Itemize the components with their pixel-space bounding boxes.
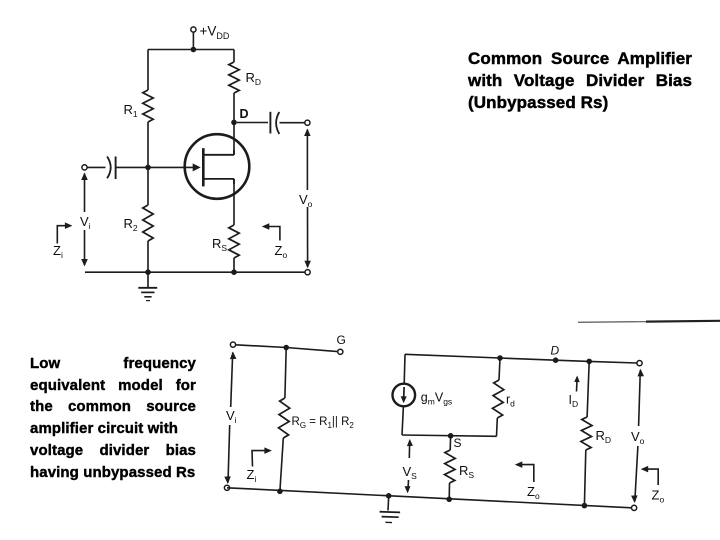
resistor R2 xyxy=(143,205,153,241)
wire RS upper (model) xyxy=(449,436,451,450)
wire D to transistor drain xyxy=(233,122,235,154)
wire dependent source box top xyxy=(405,354,500,358)
svg-text:Zo: Zo xyxy=(275,243,288,260)
input terminal xyxy=(82,165,87,170)
wire RS to bottom rail xyxy=(233,258,235,272)
svg-text:RD: RD xyxy=(246,70,262,87)
svg-text:D: D xyxy=(240,107,249,121)
capacitor C1 input coupling xyxy=(107,157,116,180)
wire transistor source down xyxy=(233,179,235,225)
svg-text:Zo: Zo xyxy=(652,488,665,505)
svg-text:Vi: Vi xyxy=(226,408,237,425)
svg-text:gmVgs: gmVgs xyxy=(421,391,452,407)
impedance Zi arrow xyxy=(57,222,72,243)
node ground junction xyxy=(386,493,392,499)
svg-text:ID: ID xyxy=(569,393,579,409)
wire rd lower xyxy=(496,418,499,436)
node RG bottom junction xyxy=(277,489,283,495)
resistor RD (model) xyxy=(581,417,592,450)
horizontal rule top right xyxy=(578,321,720,323)
resistor RS xyxy=(229,225,239,258)
power +VDD xyxy=(191,27,196,32)
node RG top junction xyxy=(283,345,289,351)
voltage VS arrow xyxy=(405,439,413,493)
current source gmVgs xyxy=(393,384,416,407)
wire to gate terminal G xyxy=(286,348,338,352)
capacitor C2 output coupling xyxy=(270,112,279,134)
wire RD lower (model) xyxy=(584,450,585,506)
node rd top junction xyxy=(497,355,503,361)
node S xyxy=(448,433,454,439)
svg-text:RS: RS xyxy=(459,463,474,480)
output bottom terminal (model) xyxy=(632,505,637,510)
wire D to RD xyxy=(556,360,590,361)
resistor R1 xyxy=(143,90,153,122)
node VDD junction xyxy=(191,47,197,53)
svg-text:Zi: Zi xyxy=(247,467,257,484)
voltage Vo arrow (model) xyxy=(631,369,644,503)
node source bottom junction xyxy=(231,269,237,275)
node RD bottom junction xyxy=(582,503,588,509)
wire R2 to bottom rail xyxy=(147,241,149,272)
voltage Vo arrow xyxy=(304,129,311,269)
wire RD to output terminal xyxy=(589,361,637,363)
node RS bottom junction xyxy=(446,497,452,503)
wire capacitor to gate node xyxy=(116,166,148,168)
input terminal (model) xyxy=(230,342,235,347)
input bottom terminal (model) xyxy=(224,485,229,490)
wire right branch upper xyxy=(233,50,235,63)
svg-text:+VDD: +VDD xyxy=(200,24,230,42)
svg-text:VS: VS xyxy=(403,464,418,481)
wire RD to node D xyxy=(233,93,235,122)
svg-text:G: G xyxy=(337,333,346,347)
impedance Zo arrow mid (model) xyxy=(515,461,534,482)
svg-text:RD: RD xyxy=(596,428,612,445)
wire top rail xyxy=(148,49,234,51)
output bottom terminal xyxy=(305,270,310,275)
svg-text:R1: R1 xyxy=(124,102,138,119)
caption text block xyxy=(30,353,196,483)
impedance Zo arrow right (model) xyxy=(641,466,659,485)
svg-text:Vi: Vi xyxy=(80,214,91,231)
wire input to capacitor xyxy=(87,166,105,168)
wire capacitor to output terminal xyxy=(280,122,305,124)
wire source box left lower xyxy=(402,406,403,435)
wire source box bottom xyxy=(402,435,497,436)
wire RS lower (model) xyxy=(448,483,450,499)
svg-text:Zi: Zi xyxy=(53,243,63,260)
impedance Zo arrow xyxy=(262,223,280,240)
node D xyxy=(231,120,237,126)
node RD top junction xyxy=(586,359,592,365)
wire source box left upper xyxy=(403,354,406,383)
impedance Zi arrow (model) xyxy=(252,447,272,466)
resistor RS (model) xyxy=(445,450,456,483)
svg-text:rd: rd xyxy=(506,393,515,409)
output terminal (model) xyxy=(637,361,642,366)
wire gate node to R2 xyxy=(147,167,149,205)
svg-text:RG = R1|| R2: RG = R1|| R2 xyxy=(292,416,355,430)
resistor RD xyxy=(229,62,239,93)
voltage Vi arrow xyxy=(81,173,88,267)
wire R1 to gate node xyxy=(147,122,149,167)
voltage Vi arrow (model) xyxy=(224,352,236,485)
svg-text:Vo: Vo xyxy=(299,192,313,209)
svg-text:R2: R2 xyxy=(124,216,138,233)
wire rd upper xyxy=(499,358,500,380)
wire bottom rail (model) xyxy=(227,488,634,508)
wire D to output capacitor xyxy=(237,122,268,124)
node G terminal xyxy=(338,349,343,354)
ground (model) xyxy=(380,496,401,523)
current ID arrow xyxy=(574,376,580,392)
svg-text:RS: RS xyxy=(212,236,227,253)
wire RG upper xyxy=(285,348,286,399)
resistor RG xyxy=(279,398,290,438)
node bottom left junction xyxy=(145,269,151,275)
wire gate node to transistor xyxy=(148,166,193,168)
title text block xyxy=(468,48,692,114)
output terminal xyxy=(305,120,310,125)
wire input to RG node xyxy=(236,345,287,348)
transistor Q1 MOSFET xyxy=(185,134,250,199)
svg-text:D: D xyxy=(551,344,560,358)
wire bottom rail xyxy=(85,271,308,273)
node gate junction xyxy=(145,165,151,171)
svg-text:Zo: Zo xyxy=(527,484,540,501)
wire left branch upper xyxy=(147,50,149,91)
node D (model) xyxy=(553,357,559,363)
svg-text:S: S xyxy=(454,436,462,450)
ground xyxy=(138,272,157,300)
svg-text:Vo: Vo xyxy=(631,429,645,446)
wire rd top to D xyxy=(500,358,556,360)
wire RG lower xyxy=(280,438,283,491)
wire RD upper (model) xyxy=(587,361,589,417)
resistor rd xyxy=(493,380,504,418)
